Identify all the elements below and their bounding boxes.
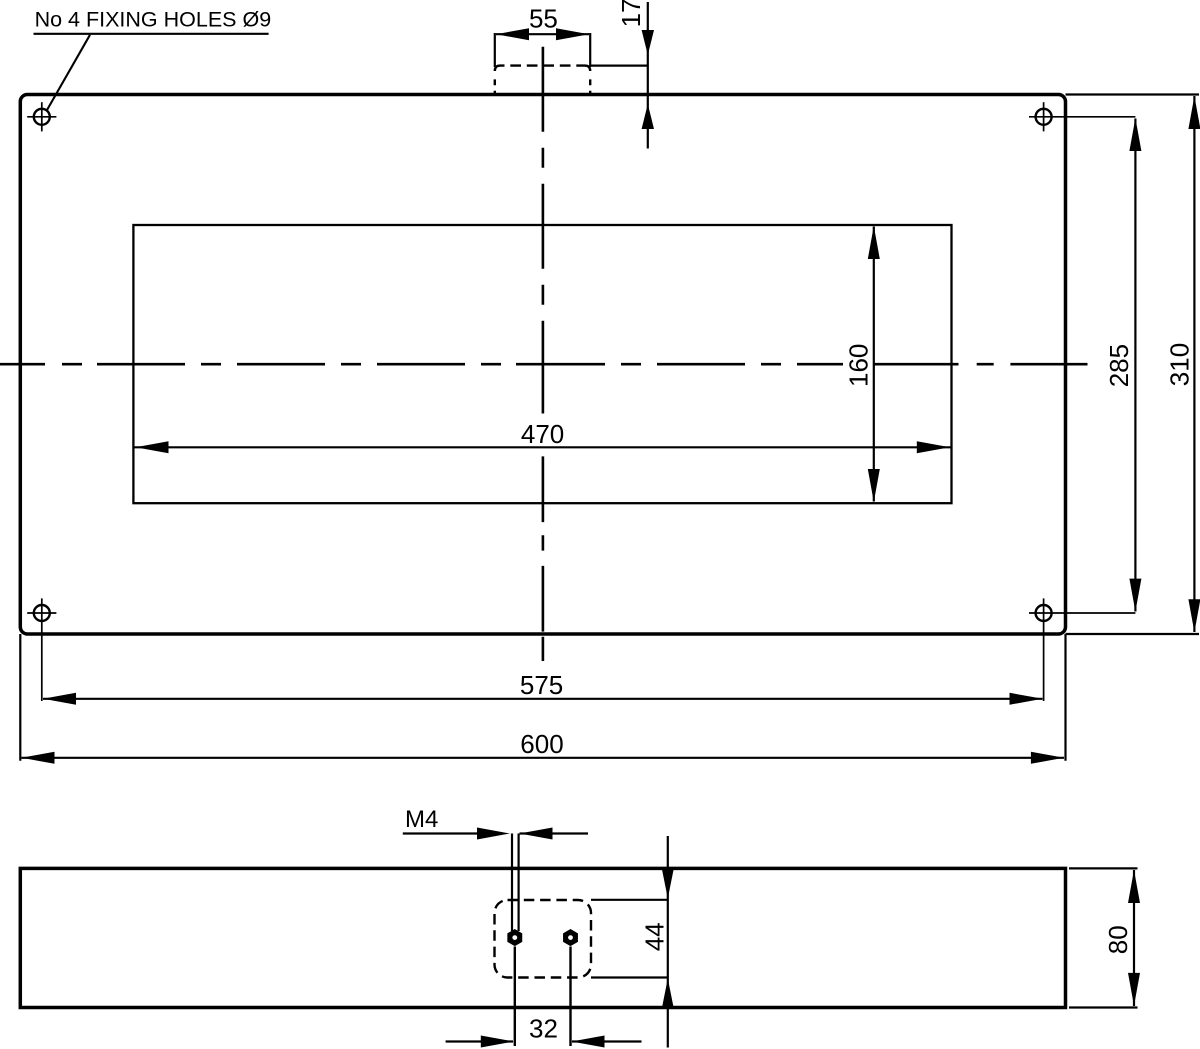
fixing hole top-left [27, 102, 56, 131]
dimension M4 arrows [403, 828, 588, 840]
svg-text:470: 470 [521, 419, 564, 449]
cutout rectangle [133, 225, 951, 503]
fixing hole top-right [1029, 102, 1135, 131]
dimension 55 [495, 4, 590, 67]
dimension 17 [590, 0, 654, 149]
svg-text:55: 55 [529, 4, 558, 34]
svg-text:285: 285 [1104, 344, 1134, 387]
hidden bracket in side view (dashed) [495, 900, 592, 978]
horizontal centerline [0, 363, 1088, 366]
screw shank (M4 stud) [512, 834, 519, 932]
svg-text:44: 44 [639, 922, 669, 951]
fixing hole bottom-right [1029, 598, 1135, 701]
svg-text:160: 160 [843, 344, 873, 387]
svg-text:310: 310 [1165, 343, 1195, 386]
dimension 310 [1066, 95, 1200, 635]
side view outline [20, 868, 1065, 1007]
dimension 32 [446, 947, 642, 1048]
dimension 470 [135, 415, 951, 453]
vertical centerline [542, 47, 545, 661]
hidden bracket on top edge (dashed) [495, 66, 590, 95]
note label: No 4 FIXING HOLES [34, 7, 272, 34]
svg-text:80: 80 [1103, 925, 1133, 954]
dimension 600 [20, 634, 1065, 764]
dimension 160 [843, 226, 880, 502]
svg-text:No 4 FIXING HOLES Ø9: No 4 FIXING HOLES Ø9 [35, 7, 272, 31]
svg-text:32: 32 [529, 1014, 558, 1044]
svg-text:M4: M4 [405, 806, 438, 833]
leader line to top-left hole [47, 35, 90, 110]
panel outline (top view) [20, 95, 1065, 635]
dimension 80 [1069, 868, 1140, 1007]
nut right [564, 930, 577, 945]
svg-text:575: 575 [520, 670, 563, 700]
dimension 575 [43, 670, 1043, 705]
dimension 44 [591, 836, 674, 1048]
fixing hole bottom-left [27, 598, 56, 701]
svg-text:17: 17 [616, 0, 646, 27]
svg-text:600: 600 [520, 729, 563, 759]
dimension 285 [1104, 118, 1141, 612]
nut left [508, 930, 521, 945]
